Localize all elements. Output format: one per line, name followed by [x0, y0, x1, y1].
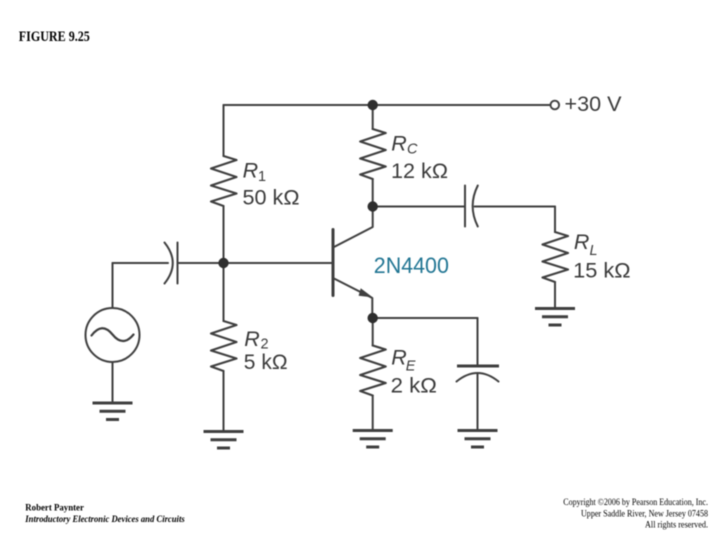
svg-text:R: R — [243, 159, 259, 183]
svg-text:Upper Saddle River, New Jersey: Upper Saddle River, New Jersey 07458 — [581, 509, 708, 520]
svg-text:R: R — [391, 132, 407, 156]
svg-text:R: R — [391, 345, 407, 369]
svg-text:E: E — [406, 358, 416, 374]
svg-text:12 kΩ: 12 kΩ — [391, 159, 448, 183]
svg-text:+30 V: +30 V — [565, 92, 623, 116]
svg-text:5 kΩ: 5 kΩ — [244, 350, 288, 374]
svg-text:FIGURE 9.25: FIGURE 9.25 — [19, 29, 90, 45]
svg-text:Introductory Electronic Device: Introductory Electronic Devices and Circ… — [24, 514, 184, 525]
svg-text:R: R — [574, 230, 590, 254]
svg-text:2N4400: 2N4400 — [374, 253, 449, 278]
svg-text:R: R — [244, 327, 260, 351]
svg-text:15 kΩ: 15 kΩ — [573, 258, 631, 282]
svg-text:L: L — [590, 243, 598, 259]
svg-text:50 kΩ: 50 kΩ — [243, 186, 300, 210]
svg-text:C: C — [407, 142, 418, 158]
svg-text:Robert Paynter: Robert Paynter — [25, 503, 84, 514]
svg-text:2 kΩ: 2 kΩ — [391, 373, 437, 397]
svg-text:All rights reserved.: All rights reserved. — [645, 519, 708, 530]
svg-text:1: 1 — [258, 169, 266, 185]
svg-text:Copyright ©2006 by Pearson Edu: Copyright ©2006 by Pearson Education, In… — [563, 497, 708, 508]
